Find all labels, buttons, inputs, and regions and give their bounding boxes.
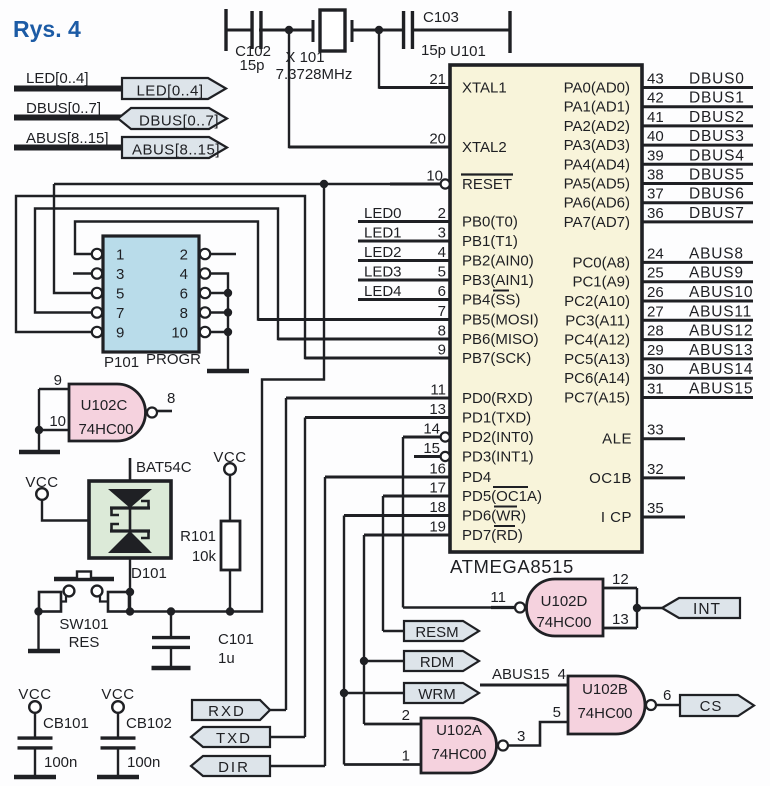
svg-text:SW101: SW101 [59, 616, 108, 633]
pin label PC4(A12) [564, 332, 630, 349]
svg-text:D101: D101 [131, 565, 167, 582]
node XTAL1 junction [375, 26, 383, 34]
wire INT0 riser [402, 437, 404, 608]
svg-text:DBUS1: DBUS1 [689, 90, 745, 107]
pin 14 stub [403, 421, 450, 442]
wire XTAL2 route [289, 34, 450, 147]
svg-text:ALE: ALE [602, 431, 632, 448]
svg-text:35: 35 [647, 500, 664, 517]
node D101 rail top [126, 588, 134, 596]
pin 39 wire DBUS4 [642, 147, 753, 164]
svg-text:26: 26 [647, 284, 664, 301]
terminal bar left [224, 9, 227, 51]
pin 7 stub [258, 303, 450, 320]
diode D101 BAT54C [89, 458, 192, 582]
pin 3 stub LED1 [358, 225, 450, 242]
pin label PD3(INT1) [462, 449, 534, 466]
svg-text:7: 7 [438, 303, 446, 320]
svg-text:14: 14 [423, 421, 440, 438]
svg-text:1u: 1u [218, 650, 235, 667]
pin 29 wire ABUS13 [642, 342, 753, 359]
wire P101 pin4 to ground rail [211, 274, 229, 372]
pin label PD1(TXD) [462, 410, 531, 427]
svg-text:PB6(MISO): PB6(MISO) [462, 331, 539, 348]
svg-text:6: 6 [663, 687, 671, 704]
nand gate U102A 74HC00 [421, 718, 508, 773]
wire WR riser [343, 516, 345, 765]
svg-text:PC0(A8): PC0(A8) [572, 254, 630, 271]
node INT junction [633, 604, 641, 612]
vcc D101 [25, 474, 58, 500]
wire DIR riser [324, 477, 326, 766]
svg-text:1: 1 [116, 247, 124, 264]
svg-text:19: 19 [429, 519, 446, 536]
ground CB102 [97, 775, 139, 780]
pin label PC6(A14) [564, 370, 630, 387]
svg-text:LED[0..4]: LED[0..4] [136, 83, 203, 100]
svg-text:11: 11 [430, 382, 446, 399]
svg-text:ABUS9: ABUS9 [689, 265, 744, 282]
svg-text:VCC: VCC [101, 686, 134, 703]
wire C102 to X101 node [259, 29, 313, 32]
svg-text:PA5(AD5): PA5(AD5) [564, 176, 630, 193]
svg-text:XTAL2: XTAL2 [462, 139, 507, 156]
svg-text:VCC: VCC [18, 686, 51, 703]
svg-text:74HC00: 74HC00 [78, 421, 133, 438]
pin label PD6(WR) [462, 507, 526, 525]
pin label PB5(MOSI) [462, 312, 539, 329]
switch SW101 RES [39, 572, 129, 652]
svg-text:74HC00: 74HC00 [577, 705, 632, 722]
bus wire LED[0..4] [14, 86, 124, 92]
svg-text:PC3(A11): PC3(A11) [565, 312, 630, 329]
pin label PC7(A15) [564, 390, 630, 407]
svg-text:40: 40 [647, 128, 664, 145]
svg-text:15p: 15p [421, 42, 446, 59]
pin 24 wire ABUS8 [642, 245, 753, 262]
wire U102C to ground [38, 430, 40, 452]
pin label PC5(A13) [564, 351, 630, 368]
capacitor C103 [404, 9, 459, 59]
wire RXD riser [285, 398, 287, 710]
wire RESET line [54, 183, 390, 185]
pin 16 stub [325, 461, 450, 478]
svg-text:PC2(A10): PC2(A10) [564, 293, 630, 310]
svg-text:RESM: RESM [415, 624, 458, 641]
svg-text:PA0(AD0): PA0(AD0) [564, 80, 630, 97]
node XTAL2 junction [285, 26, 293, 34]
wire TXD [270, 736, 305, 738]
svg-text:PC7(A15): PC7(A15) [564, 390, 630, 407]
connector P101 PROGR [92, 236, 210, 371]
svg-text:PA2(AD2): PA2(AD2) [564, 118, 630, 135]
pin label PC0(A8) [572, 254, 630, 271]
svg-text:ABUS8: ABUS8 [689, 245, 744, 262]
pin 37 wire DBUS6 [642, 186, 753, 203]
svg-text:2: 2 [402, 707, 410, 724]
svg-text:LED1: LED1 [364, 225, 402, 242]
svg-text:LED2: LED2 [364, 244, 402, 261]
svg-text:CB101: CB101 [43, 715, 89, 732]
wire RDM [364, 660, 404, 662]
svg-text:5: 5 [553, 704, 561, 721]
svg-text:16: 16 [429, 461, 446, 478]
svg-text:11: 11 [490, 589, 506, 606]
svg-text:PD5(OC1A): PD5(OC1A) [462, 488, 542, 505]
pin 10 RESET stub [390, 168, 450, 189]
pin 35 ICP stub [642, 500, 685, 517]
wire RESET riser [129, 184, 324, 612]
svg-text:PA7(AD7): PA7(AD7) [564, 214, 630, 231]
svg-text:17: 17 [429, 480, 446, 497]
svg-text:37: 37 [647, 186, 664, 203]
svg-text:DBUS4: DBUS4 [689, 147, 745, 164]
svg-text:PB0(T0): PB0(T0) [462, 214, 518, 231]
svg-text:DBUS0: DBUS0 [689, 71, 745, 88]
wire INT [637, 607, 662, 609]
svg-text:LED3: LED3 [364, 264, 402, 281]
svg-text:12: 12 [612, 571, 629, 588]
pin 13 stub [305, 401, 450, 418]
svg-text:39: 39 [647, 147, 664, 164]
svg-text:1: 1 [402, 748, 410, 765]
svg-text:LED4: LED4 [364, 283, 402, 300]
svg-text:42: 42 [647, 90, 664, 107]
wire VCC to R101 [229, 475, 231, 521]
svg-text:PC1(A9): PC1(A9) [572, 274, 630, 291]
svg-text:74HC00: 74HC00 [536, 614, 591, 631]
wire P101 pin6 stub [211, 289, 233, 297]
tag RXD [192, 700, 270, 720]
svg-text:WRM: WRM [418, 686, 456, 703]
wire WRM [344, 692, 404, 694]
node D101 rail [126, 607, 134, 615]
pin label XTAL1 [462, 80, 507, 97]
pin 26 wire ABUS10 [642, 284, 753, 301]
svg-text:DBUS6: DBUS6 [689, 186, 745, 203]
svg-text:DBUS3: DBUS3 [689, 128, 745, 145]
pin 9 stub [305, 342, 450, 359]
wire P101 pin3 stub [73, 272, 92, 274]
resistor R101 10k [180, 521, 240, 570]
svg-text:PC4(A12): PC4(A12) [564, 332, 630, 349]
svg-text:RXD: RXD [208, 703, 246, 720]
wire ABUS15 to pin 4 [480, 666, 568, 685]
pin label ICP [601, 509, 632, 526]
pin 19 stub [364, 519, 450, 536]
pin 4 stub LED2 [358, 244, 450, 261]
svg-text:PD0(RXD): PD0(RXD) [462, 390, 533, 407]
pin 41 wire DBUS2 [642, 109, 753, 126]
svg-text:6: 6 [180, 286, 188, 303]
wire X101 to C103 node [352, 29, 403, 32]
svg-text:41: 41 [647, 109, 664, 126]
svg-text:U102B: U102B [582, 681, 628, 698]
wire P101 pin9 to PB7 [16, 196, 450, 358]
wire P101 pin7 to PB6 [35, 209, 450, 340]
svg-text:ABUS15: ABUS15 [689, 381, 753, 398]
pin 15 stub [414, 440, 450, 461]
svg-text:8: 8 [438, 323, 446, 340]
node RESET junction [320, 180, 328, 188]
svg-text:R101: R101 [180, 528, 216, 545]
bus tag DBUS[0..7] [118, 108, 227, 130]
wire P101 pin8 stub [211, 308, 233, 316]
svg-text:38: 38 [647, 167, 664, 184]
svg-text:ABUS13: ABUS13 [689, 342, 753, 359]
svg-text:U102D: U102D [541, 593, 588, 610]
svg-text:RESET: RESET [462, 176, 512, 193]
nand gate U102D 74HC00 [515, 579, 603, 636]
svg-text:3: 3 [438, 225, 446, 242]
svg-text:PD3(INT1): PD3(INT1) [462, 449, 534, 466]
pin 27 wire ABUS11 [642, 303, 753, 320]
svg-text:C103: C103 [423, 9, 459, 26]
pin 17 stub [383, 480, 450, 497]
svg-text:21: 21 [429, 71, 446, 88]
pin 2 stub LED0 [358, 205, 450, 222]
svg-text:U102A: U102A [436, 722, 482, 739]
svg-text:ABUS15: ABUS15 [492, 666, 550, 683]
svg-text:C101: C101 [218, 631, 254, 648]
svg-text:DBUS[0..7]: DBUS[0..7] [26, 100, 101, 117]
svg-text:PD2(INT0): PD2(INT0) [462, 429, 534, 446]
node WRM junction [340, 689, 348, 697]
svg-text:PA1(AD1): PA1(AD1) [564, 99, 630, 116]
pin label RESET [461, 175, 513, 194]
svg-text:ABUS[8..15]: ABUS[8..15] [132, 142, 220, 159]
pin label ALE [602, 431, 632, 448]
svg-text:100n: 100n [127, 754, 160, 771]
svg-text:RES: RES [69, 634, 100, 651]
pin 31 wire ABUS15 [642, 381, 753, 398]
node SW101 ground corner [34, 607, 42, 615]
capacitor CB102 100n [101, 713, 172, 775]
svg-text:5: 5 [438, 264, 446, 281]
pin label PA7(AD7) [564, 214, 630, 231]
svg-text:U101: U101 [450, 43, 486, 60]
nand gate U102B 74HC00 [568, 676, 656, 734]
svg-text:9: 9 [438, 342, 446, 359]
svg-text:PC5(A13): PC5(A13) [564, 351, 630, 368]
svg-text:7: 7 [116, 305, 124, 322]
wire P101 pin5 to RESET [54, 184, 92, 293]
pin 13 wire U102D [603, 611, 637, 628]
pin 6 wire U102B [656, 687, 680, 705]
capacitor C101 1u [152, 612, 254, 669]
pin 1 wire U102A [344, 748, 421, 765]
wire RESM [383, 630, 404, 632]
net label DBUS[0..7] [26, 100, 101, 117]
nand gate U102C 74HC00 [69, 384, 157, 441]
svg-text:2: 2 [180, 247, 188, 264]
pin label PB1(T1) [462, 233, 518, 250]
svg-text:24: 24 [647, 245, 664, 262]
pin 11 wire U102D [403, 589, 515, 608]
svg-text:TXD: TXD [216, 730, 252, 747]
net label ABUS[8..15] [26, 130, 109, 147]
svg-text:5: 5 [116, 286, 124, 303]
svg-text:DIR: DIR [218, 759, 250, 776]
pin label PB0(T0) [462, 214, 518, 231]
svg-text:6: 6 [438, 283, 446, 300]
svg-text:29: 29 [647, 342, 664, 359]
svg-text:ABUS14: ABUS14 [689, 361, 753, 378]
pin 9 wire U102C [39, 372, 69, 389]
ground CB101 [14, 775, 56, 780]
svg-text:DBUS2: DBUS2 [689, 109, 745, 126]
pin 6 stub LED4 [358, 283, 450, 300]
svg-text:P101: P101 [104, 354, 139, 371]
svg-text:25: 25 [647, 265, 664, 282]
wire P101 pin1 to PB5 [75, 222, 450, 320]
pin 33 ALE stub [642, 422, 685, 439]
svg-text:BAT54C: BAT54C [136, 459, 192, 476]
pin label PA3(AD3) [564, 137, 630, 154]
svg-text:28: 28 [647, 323, 664, 340]
svg-text:9: 9 [54, 372, 62, 389]
tag RESM [404, 621, 479, 641]
wire RXD [270, 709, 286, 711]
svg-text:43: 43 [647, 71, 664, 88]
svg-text:15: 15 [423, 440, 440, 457]
svg-text:10: 10 [426, 168, 443, 185]
tag TXD [191, 727, 270, 747]
pin 3 wire U102A [508, 722, 568, 746]
svg-text:XTAL1: XTAL1 [462, 80, 507, 97]
svg-text:13: 13 [429, 401, 446, 418]
svg-text:3: 3 [517, 728, 525, 745]
wire XTAL1 route [379, 34, 450, 88]
svg-text:10: 10 [49, 413, 66, 430]
wire C103 to right bar [413, 29, 510, 32]
pin label PA0(AD0) [564, 80, 630, 97]
pin 30 wire ABUS14 [642, 361, 753, 378]
pin 2 wire U102A [364, 707, 421, 724]
pin label PB7(SCK) [462, 350, 531, 367]
svg-text:U102C: U102C [81, 397, 128, 414]
pin 5 stub LED3 [358, 264, 450, 281]
svg-text:X 101: X 101 [285, 49, 324, 66]
wire P101 pin2 stub [211, 253, 237, 255]
pin label PC2(A10) [564, 293, 630, 310]
bus tag LED[0..4] [122, 78, 226, 100]
svg-text:ABUS10: ABUS10 [689, 284, 753, 301]
svg-text:33: 33 [647, 422, 664, 439]
svg-text:PA4(AD4): PA4(AD4) [564, 156, 630, 173]
pin label PD0(RXD) [462, 390, 533, 407]
pin label PA4(AD4) [564, 156, 630, 173]
svg-text:PC6(A14): PC6(A14) [564, 370, 630, 387]
svg-text:ABUS12: ABUS12 [689, 323, 753, 340]
pin 20 stub [289, 131, 450, 148]
capacitor C102 [235, 11, 271, 74]
wire top rail left [226, 29, 252, 32]
pin label PA6(AD6) [564, 195, 630, 212]
pin label PD7(RD) [462, 526, 523, 544]
pin label PB2(AIN0) [462, 253, 534, 270]
svg-text:Rys. 4: Rys. 4 [13, 16, 81, 42]
node RDM junction [360, 657, 368, 665]
wire U102D output tie [636, 588, 638, 628]
node R101 rail [226, 607, 234, 615]
wire U102C input tie [38, 389, 40, 430]
svg-text:PB4(SS): PB4(SS) [462, 292, 520, 309]
svg-text:PB2(AIN0): PB2(AIN0) [462, 253, 534, 270]
wire TXD riser [304, 418, 306, 738]
bus wire ABUS[8..15] [14, 145, 124, 151]
svg-text:20: 20 [429, 131, 446, 148]
bus tag ABUS[8..15] [122, 137, 227, 159]
svg-text:DBUS[0..7]: DBUS[0..7] [139, 113, 219, 130]
pin 21 stub [379, 71, 450, 88]
vcc R101 [213, 449, 246, 475]
node U102C inputs [35, 426, 43, 434]
svg-text:10k: 10k [192, 548, 217, 565]
wire RESM riser [382, 496, 384, 631]
tag DIR [191, 756, 270, 776]
svg-text:ATMEGA8515: ATMEGA8515 [450, 556, 574, 577]
pin label XTAL2 [462, 139, 507, 156]
svg-text:PD4: PD4 [462, 469, 491, 486]
ground C101 [152, 666, 191, 671]
pin 25 wire ABUS9 [642, 265, 753, 282]
svg-text:DBUS7: DBUS7 [689, 205, 745, 222]
pin label OC1B [589, 470, 632, 487]
wire D101 to rail [129, 558, 131, 612]
crystal X101 [276, 10, 353, 83]
pin 11 stub [286, 382, 450, 399]
svg-text:13: 13 [612, 611, 629, 628]
ic U101 ATMEGA8515 body [450, 43, 642, 577]
terminal bar right [508, 11, 511, 53]
vcc CB101 [18, 686, 51, 713]
wire P101 pin10 stub [211, 328, 233, 336]
svg-text:36: 36 [647, 205, 664, 222]
svg-text:ABUS11: ABUS11 [689, 303, 752, 320]
pin label PB6(MISO) [462, 331, 539, 348]
svg-text:PD6(WR): PD6(WR) [462, 508, 526, 525]
svg-text:8: 8 [167, 390, 175, 407]
tag INT [662, 598, 740, 618]
pin 12 wire U102D [603, 571, 637, 588]
svg-text:CS: CS [700, 698, 723, 715]
tag CS [680, 695, 754, 716]
svg-text:LED0: LED0 [364, 205, 402, 222]
tag WRM [404, 683, 479, 703]
svg-text:INT: INT [693, 601, 721, 618]
svg-text:4: 4 [180, 266, 188, 283]
svg-text:32: 32 [647, 461, 664, 478]
wire R101 to rail [229, 570, 231, 612]
pin 10 wire U102C [39, 413, 69, 430]
svg-text:4: 4 [438, 244, 446, 261]
svg-text:74HC00: 74HC00 [431, 746, 486, 763]
pin label PB3(AIN1) [462, 272, 534, 289]
svg-text:30: 30 [647, 361, 664, 378]
svg-text:PROGR: PROGR [146, 351, 201, 368]
svg-text:10: 10 [171, 325, 188, 342]
svg-text:PB3(AIN1): PB3(AIN1) [462, 272, 534, 289]
ground P101 [207, 369, 249, 374]
node C101 rail [167, 607, 175, 615]
svg-text:7.3728MHz: 7.3728MHz [276, 66, 353, 83]
pin 38 wire DBUS5 [642, 167, 753, 184]
pin 18 stub [344, 499, 450, 516]
svg-text:PB1(T1): PB1(T1) [462, 233, 518, 250]
ground U102C [19, 450, 60, 455]
svg-text:VCC: VCC [25, 474, 58, 491]
